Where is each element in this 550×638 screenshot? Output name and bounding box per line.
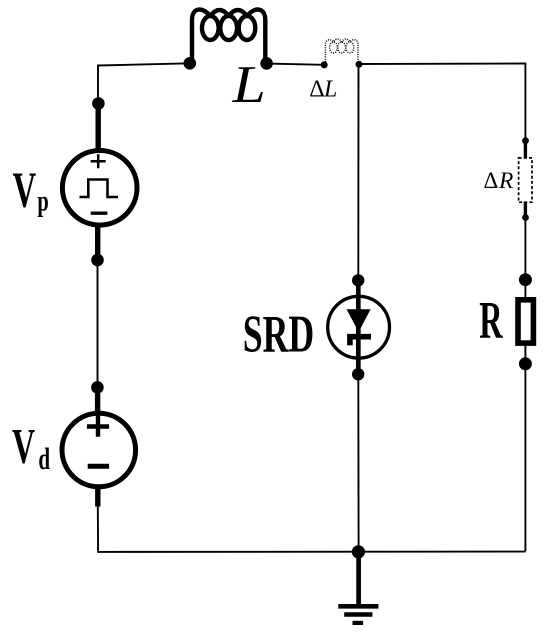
node dot dR top [522, 137, 529, 144]
node dot dL left [321, 61, 328, 68]
Vp pulse waveform [80, 180, 119, 198]
resistor dR (dashed) [519, 158, 532, 202]
wire R dot to R body [524, 280, 526, 298]
wire stub Vd bottom [95, 486, 100, 507]
svg-text:d: d [38, 441, 50, 476]
diode SRD circle [328, 296, 390, 358]
wire stub Vd top [95, 387, 100, 413]
wire L to dL [267, 64, 325, 65]
wire R to bottom [524, 364, 526, 552]
wire right rail upper [524, 63, 526, 141]
svg-text:Δ: Δ [484, 168, 499, 193]
SRD diode triangle [347, 309, 371, 332]
Vp minus sign [91, 211, 108, 214]
source Vd circle [62, 413, 136, 487]
wire stub SRD vertical [356, 280, 361, 374]
node dot L left [184, 57, 197, 70]
Vp plus sign [91, 154, 106, 168]
SRD cathode bar with hook [350, 337, 371, 346]
svg-text:L: L [231, 56, 265, 114]
inductor dL (incremental, dotted) [325, 39, 358, 62]
wire stub Vp bottom [95, 224, 100, 260]
svg-text:R: R [498, 168, 513, 194]
node dot R top [519, 273, 532, 286]
wire dL to top-right corner [359, 63, 525, 66]
Vd plus sign [87, 416, 109, 437]
svg-text:SRD: SRD [243, 305, 315, 364]
wire left rail upper [97, 65, 99, 105]
svg-text:V: V [12, 419, 35, 474]
svg-text:R: R [479, 292, 503, 350]
node dot R bottom [519, 357, 532, 370]
node dot Vp bottom [91, 254, 104, 267]
wire R body to dot [524, 345, 526, 364]
inductor L [192, 10, 265, 62]
wire Vp to Vd [97, 260, 99, 387]
wire stub dR top [524, 141, 527, 159]
wire SRD branch lower [357, 374, 359, 552]
wire Vd to bottom-left corner [97, 505, 99, 552]
wire bottom horizontal [97, 551, 525, 553]
ground [356, 552, 361, 605]
node dot dR bottom [522, 214, 529, 221]
source Vp circle [62, 151, 137, 226]
wire stub dR bottom [524, 202, 527, 218]
node dot Vp top [92, 97, 105, 110]
wire dR to R [524, 218, 526, 280]
svg-text:V: V [13, 163, 37, 219]
node dot dL right [356, 61, 363, 68]
resistor R [518, 300, 533, 343]
wire SRD branch upper [357, 64, 359, 280]
svg-text:p: p [37, 184, 48, 218]
svg-text:L: L [323, 77, 337, 103]
node dot SRD top [352, 274, 364, 286]
svg-text:Δ: Δ [309, 77, 324, 103]
node dot Vd top [91, 381, 104, 394]
node dot L right [260, 57, 273, 70]
wire stub Vp top [95, 104, 100, 153]
node dot ground junction [352, 545, 365, 558]
Vd minus sign [88, 464, 109, 469]
node dot SRD bottom [352, 368, 364, 380]
wire top-left horizontal [98, 63, 190, 65]
